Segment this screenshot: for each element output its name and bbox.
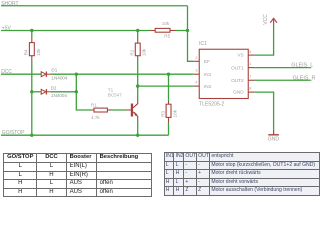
- junction R5/SHORT/EF: [186, 29, 189, 32]
- junction IN2/collector: [136, 84, 139, 87]
- wire R4 bottom to GO/STOP rail: [31, 61, 33, 135]
- svg-text:4,7k: 4,7k: [91, 115, 100, 120]
- svg-text:IN2: IN2: [204, 84, 212, 89]
- wire R1 to T1 base: [110, 109, 126, 111]
- wire GO/STOP rail: [1, 134, 169, 136]
- svg-text:1N4004: 1N4004: [51, 93, 68, 98]
- IC pin OUT2 (7): [248, 79, 254, 81]
- svg-text:VS: VS: [237, 53, 243, 58]
- svg-text:10k: 10k: [162, 21, 170, 26]
- svg-text:6: 6: [249, 50, 251, 54]
- svg-text:BC547: BC547: [108, 92, 122, 97]
- svg-text:10k: 10k: [36, 48, 41, 56]
- resistor R2: [135, 37, 140, 59]
- svg-text:8: 8: [249, 87, 251, 91]
- resistor R1: [91, 108, 110, 112]
- junction R3 top on IN1 net: [167, 73, 170, 76]
- resistor R5: [150, 28, 175, 32]
- svg-text:R4: R4: [24, 49, 29, 55]
- junction rail/emitter: [136, 134, 139, 137]
- junction +5V/R2: [136, 29, 139, 32]
- wire SHORT horizontal: [1, 5, 188, 7]
- wire +5V rail: [1, 30, 151, 32]
- svg-text:OUT2: OUT2: [231, 78, 244, 83]
- svg-text:R2: R2: [130, 49, 135, 55]
- svg-text:OUT1: OUT1: [231, 65, 244, 70]
- wire OUT2 to GLEIS_R: [254, 79, 311, 81]
- wire R2 top lead green: [137, 31, 139, 38]
- junction D2 anode tap: [30, 90, 33, 93]
- wire IN2 from collector net: [138, 85, 194, 87]
- svg-text:2: 2: [195, 56, 197, 60]
- wire OUT1 to GLEIS_L: [254, 67, 311, 69]
- diode D2: [41, 89, 51, 94]
- junction D1 cathode node: [75, 73, 78, 76]
- wire D2 anode branch: [32, 91, 41, 93]
- transistor T1: [126, 99, 137, 120]
- junction rail/R4 branch: [30, 134, 33, 137]
- wire EF drop: [188, 31, 194, 62]
- svg-text:R5: R5: [164, 34, 170, 39]
- svg-text:10k: 10k: [173, 109, 178, 117]
- svg-text:GND: GND: [268, 137, 280, 143]
- svg-text:3: 3: [195, 69, 197, 73]
- wire diode cathodes node down to R1: [76, 74, 91, 110]
- IC pin EF (2): [193, 60, 199, 62]
- junction +5V/R4: [30, 29, 33, 32]
- wire R2 bottom to collector: [137, 59, 139, 99]
- power symbol VCC: [270, 18, 277, 24]
- wire VS to VCC: [254, 24, 273, 55]
- svg-text:VCC: VCC: [263, 14, 269, 25]
- svg-text:4: 4: [195, 81, 197, 85]
- op-amp/IC U1 TLE5205-2 box: [199, 49, 248, 98]
- svg-text:GLEIS_L: GLEIS_L: [291, 62, 313, 68]
- wire DCC to D1: [1, 73, 41, 75]
- IC pin OUT1 (1): [248, 67, 254, 69]
- svg-text:D2: D2: [51, 85, 57, 90]
- wire R5 right to junction: [175, 30, 187, 32]
- wire GND pin to ground: [254, 92, 273, 130]
- table 2: TLE5205 truth table: [164, 152, 320, 196]
- svg-text:10k: 10k: [142, 48, 147, 56]
- svg-text:GND: GND: [233, 90, 244, 95]
- svg-text:1: 1: [249, 62, 251, 66]
- svg-text:IC1: IC1: [199, 41, 207, 47]
- svg-text:TLE5205-2: TLE5205-2: [199, 101, 224, 107]
- wire D2 cathode to node: [51, 91, 77, 93]
- svg-text:IN1: IN1: [204, 72, 212, 77]
- resistor R3: [166, 101, 171, 123]
- svg-text:EF: EF: [204, 59, 210, 64]
- wire R3 bottom lead green: [168, 122, 170, 135]
- svg-text:R1: R1: [91, 102, 97, 107]
- svg-text:D1: D1: [51, 68, 57, 73]
- diode D1: [41, 72, 51, 77]
- svg-text:R3: R3: [160, 111, 165, 117]
- wire R3 top to IN1 net: [168, 74, 170, 101]
- ground symbol GND: [268, 130, 279, 135]
- wire SHORT vertical drop: [187, 6, 189, 31]
- wire R4 top lead green: [31, 31, 33, 38]
- wire D1 cathode to IN1: [51, 73, 194, 75]
- table 1: booster states: [3, 153, 152, 197]
- IC pin IN1 (3): [193, 73, 199, 75]
- svg-text:1N4004: 1N4004: [51, 76, 68, 81]
- resistor R4: [29, 37, 34, 61]
- svg-text:7: 7: [249, 75, 251, 79]
- IC pin IN2 (4): [193, 85, 199, 87]
- svg-text:GLEIS_R: GLEIS_R: [293, 75, 316, 81]
- junction D2 cathode node: [75, 90, 78, 93]
- IC pin VS (6): [248, 54, 254, 56]
- IC pin GND (8): [248, 91, 254, 93]
- wire emitter to GO/STOP rail: [137, 121, 139, 136]
